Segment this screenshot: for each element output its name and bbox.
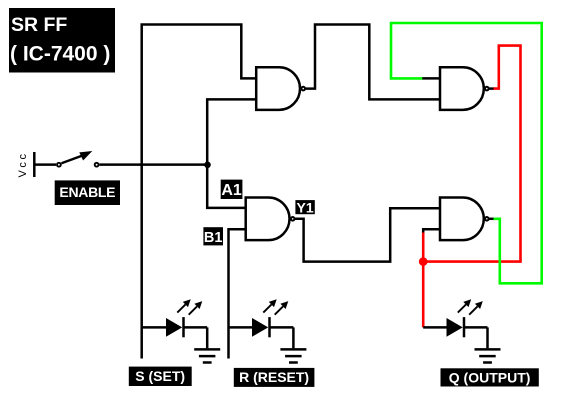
label A1	[221, 180, 243, 199]
label S (SET)	[129, 367, 192, 386]
ENABLE label	[55, 180, 120, 205]
label Y1	[295, 199, 314, 215]
ground for D3	[475, 349, 501, 362]
wire switch to ENABLE node	[99, 163, 207, 166]
svg-text:ENABLE: ENABLE	[59, 184, 115, 200]
wire U1D input 2 stub (black)	[423, 229, 440, 232]
svg-text:Vcc: Vcc	[17, 151, 29, 177]
wire U1B input 1 stub (black)	[422, 77, 440, 80]
ground for D1	[194, 349, 220, 362]
svg-text:Y1: Y1	[297, 199, 314, 215]
title label SR FF (IC-7400)	[9, 8, 115, 73]
wire U1D output stub	[489, 218, 495, 221]
Vcc rail	[17, 151, 34, 177]
wire red node to U1D input 2 (red part)	[422, 232, 425, 262]
wire ENABLE node to gate U1C input A1	[207, 165, 246, 208]
ground for D2	[280, 349, 306, 362]
nand gate U1B	[440, 67, 489, 110]
svg-text:A1: A1	[221, 182, 242, 199]
svg-text:R (RESET): R (RESET)	[239, 369, 309, 385]
nand gate U1C	[246, 198, 295, 241]
nand gate U1A	[256, 67, 305, 110]
led D2 (R)	[229, 299, 294, 348]
wire Vcc to switch	[34, 163, 56, 166]
wire red node down to Q LED	[422, 262, 425, 328]
node ENABLE junction	[204, 162, 211, 169]
wire Q-bar feedback (red) U1B output to node	[423, 46, 520, 262]
led D1 (S)	[142, 299, 208, 348]
svg-text:( IC-7400 ): ( IC-7400 )	[10, 43, 110, 66]
svg-text:SR FF: SR FF	[11, 14, 67, 36]
wire U1A output to U1B input 2	[306, 25, 441, 100]
wire U1B output stub	[489, 87, 495, 90]
node Q junction (red)	[419, 257, 428, 266]
switch SW1 ENABLE	[57, 151, 99, 167]
nand gate U1D	[440, 198, 489, 241]
led D3 (Q)	[423, 299, 487, 348]
wire R input to gate U1C input B1	[229, 229, 246, 358]
label R (RESET)	[234, 368, 315, 387]
wire Y1 output to U1D input 1	[295, 208, 440, 261]
wire Q feedback (green) U1D output to U1B input 1	[391, 23, 542, 283]
label Q (OUTPUT)	[441, 368, 539, 386]
svg-text:Q (OUTPUT): Q (OUTPUT)	[449, 369, 531, 385]
wire S input to gate U1A input 1	[142, 25, 257, 359]
svg-text:B1: B1	[204, 230, 223, 246]
svg-text:S (SET): S (SET)	[135, 368, 185, 384]
label B1	[203, 227, 223, 246]
wire ENABLE node to gate U1A input 2	[207, 99, 256, 164]
